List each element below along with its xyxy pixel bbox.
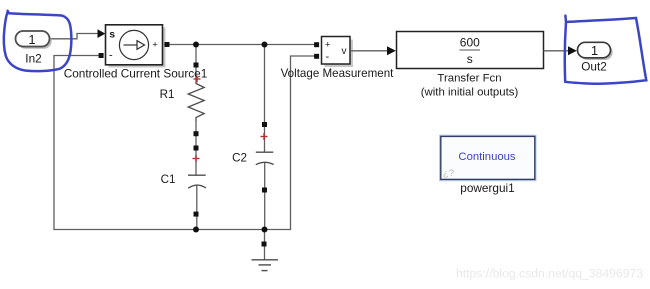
- resistor R1 zigzag: [188, 84, 204, 123]
- arrowhead into Transfer Fcn: [387, 46, 396, 55]
- svg-text:In2: In2: [25, 52, 41, 66]
- port square C1 top: [194, 146, 199, 151]
- port square C1 bottom: [194, 212, 199, 217]
- svg-text:-: -: [109, 50, 113, 62]
- red polarity mark R1: [194, 76, 201, 83]
- svg-text:R1: R1: [160, 88, 175, 101]
- svg-text:powergui1: powergui1: [460, 181, 514, 195]
- wire C2 branch vertical: [264, 45, 266, 260]
- svg-text:Transfer Fcn: Transfer Fcn: [437, 73, 501, 85]
- wire CCS minus loop left-down-bottom: [54, 56, 196, 230]
- arrowhead into s-port: [98, 29, 106, 38]
- node B junction dot: [262, 42, 268, 48]
- port square ground: [262, 242, 267, 247]
- voltage measurement U2 block body: [322, 37, 354, 68]
- port square CCS plus output: [165, 42, 170, 47]
- wire R1 branch vertical: [195, 45, 198, 230]
- capacitor C1: [188, 175, 206, 188]
- red polarity mark C1: [193, 155, 200, 162]
- svg-text:(with initial outputs): (with initial outputs): [421, 86, 519, 98]
- svg-text:s: s: [467, 52, 473, 66]
- arrowhead into Out2: [568, 46, 577, 55]
- red polarity mark C2: [261, 133, 268, 140]
- wire In2 to s-port: [50, 34, 100, 39]
- powergui block: [440, 135, 537, 181]
- svg-text:Continuous: Continuous: [458, 151, 516, 163]
- port square R1 bottom: [194, 131, 199, 136]
- svg-text:+: +: [152, 40, 158, 51]
- wire Transfer Fcn to Out2: [544, 50, 570, 52]
- svg-text:-: -: [326, 51, 330, 63]
- wire bottom rail C1 to C2 to VM- riser: [196, 56, 315, 230]
- wire VM to Transfer Fcn: [350, 50, 388, 52]
- svg-text:s: s: [109, 28, 115, 40]
- port square C2 bottom: [262, 188, 267, 193]
- node A junction dot: [193, 42, 199, 48]
- outport Out2: [578, 42, 613, 73]
- svg-text:Out2: Out2: [581, 60, 607, 74]
- controlled current source U1 block body: [106, 25, 166, 68]
- svg-text:¿?: ¿?: [443, 168, 454, 179]
- inport In2: [16, 31, 52, 66]
- current source circle symbol: [119, 30, 148, 59]
- port square VM minus: [314, 54, 319, 59]
- port square R1 top: [194, 63, 199, 68]
- svg-text:1: 1: [28, 32, 35, 47]
- svg-text:https://blog.csdn.net/qq_38496: https://blog.csdn.net/qq_38496973: [456, 267, 643, 281]
- capacitor C2: [256, 152, 274, 165]
- svg-text:1: 1: [591, 43, 598, 58]
- node D junction dot bottom right: [262, 227, 268, 233]
- transfer fcn U3 block body: [397, 32, 544, 69]
- annotation blue loop around Out2: [565, 16, 647, 84]
- svg-text:C2: C2: [232, 152, 247, 165]
- port square VM plus: [314, 42, 319, 47]
- svg-text:Voltage Measurement: Voltage Measurement: [281, 67, 395, 80]
- svg-text:v: v: [342, 46, 347, 57]
- node C junction dot bottom left: [193, 227, 199, 233]
- port square C2 top: [262, 122, 267, 127]
- wire top rail CCS+ to VM+: [164, 44, 315, 46]
- svg-text:Controlled Current Source1: Controlled Current Source1: [64, 67, 208, 81]
- svg-text:C1: C1: [161, 173, 176, 186]
- port square CCS minus: [99, 53, 104, 58]
- svg-text:600: 600: [460, 35, 480, 49]
- ground symbol: [252, 260, 279, 271]
- annotation blue loop around In2: [4, 11, 72, 71]
- svg-text:+: +: [325, 40, 331, 51]
